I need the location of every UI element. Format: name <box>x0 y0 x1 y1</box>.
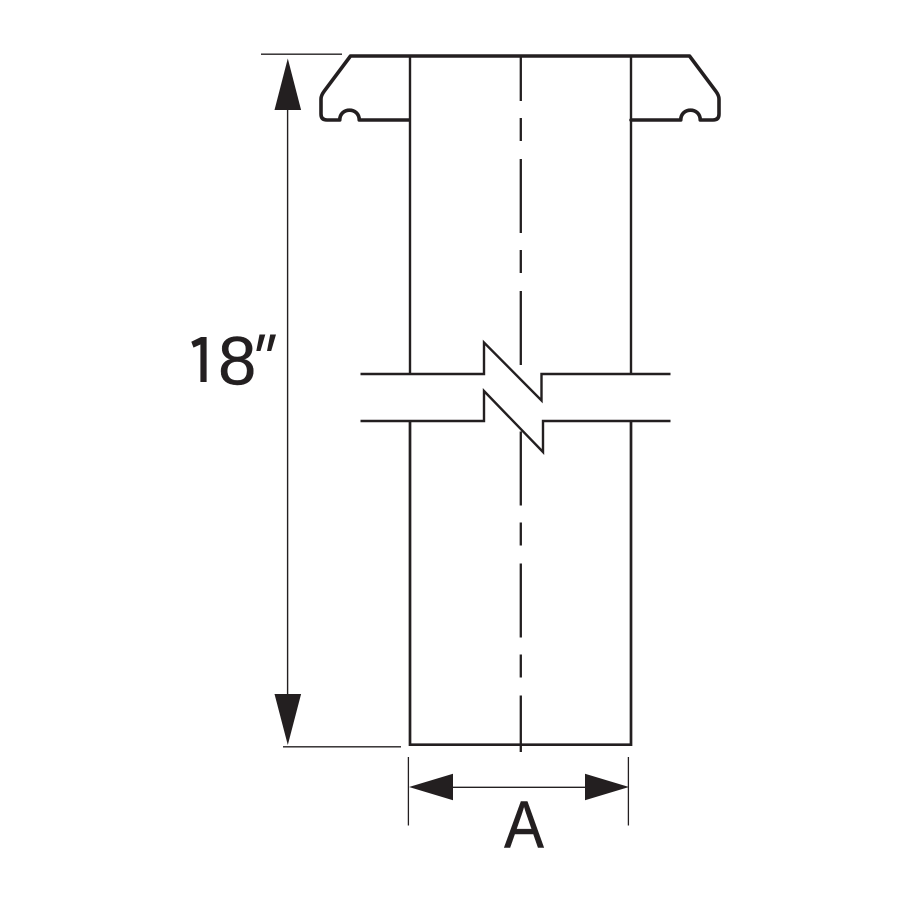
extension line left of A dimension <box>407 757 409 826</box>
tube right wall upper segment <box>630 57 632 374</box>
tube left wall upper segment <box>409 57 411 374</box>
18in dimension arrowhead down <box>275 694 302 745</box>
break symbol lower line with jog <box>361 391 671 452</box>
tube lower section walls and bottom edge <box>410 421 631 745</box>
18in dimension arrowhead up <box>275 59 302 111</box>
extension line top of 18in dimension <box>261 53 342 55</box>
centerline lower dashed <box>520 432 522 753</box>
svg-text:8: 8 <box>218 322 256 399</box>
centerline upper dashed <box>520 57 522 367</box>
flange (top cap outline with mounting notches) <box>321 56 719 120</box>
A dimension arrowhead left <box>409 774 453 800</box>
extension line right of A dimension <box>627 757 629 826</box>
inch double-prime mark stroke 1 <box>256 335 265 352</box>
extension line bottom of 18in dimension <box>283 746 401 748</box>
break symbol upper line with jog <box>361 343 671 401</box>
A dimension arrowhead right <box>585 774 629 800</box>
18in dimension line shaft <box>287 108 289 696</box>
svg-text:A: A <box>504 789 544 863</box>
inch double-prime mark stroke 2 <box>267 335 276 352</box>
label 18 digit 1 (no foot serif) <box>191 337 206 382</box>
A dimension line shaft <box>451 786 587 788</box>
